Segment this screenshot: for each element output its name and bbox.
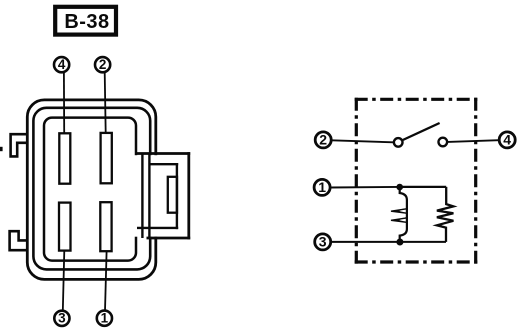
svg-text:2: 2	[319, 132, 327, 148]
pin cavity terminal 4 (top-left)	[59, 133, 70, 183]
latch inner window	[168, 177, 177, 213]
wire terminal 3 along bottom to resistor	[331, 241, 446, 243]
svg-text:1: 1	[318, 179, 326, 195]
terminal number 4 (connector)	[54, 57, 69, 72]
terminal number 1 (schematic)	[314, 179, 330, 195]
connector inner shell	[44, 118, 136, 261]
svg-text:3: 3	[58, 311, 66, 326]
svg-text:2: 2	[99, 57, 107, 72]
terminal number 3 (schematic)	[315, 234, 331, 250]
wire switch to terminal 4	[448, 140, 499, 142]
svg-text:4: 4	[503, 132, 511, 148]
node A junction dot	[396, 184, 403, 191]
pin cavity terminal 3 (bottom-left)	[59, 203, 71, 251]
switch contact A	[394, 138, 403, 147]
svg-text:1: 1	[101, 311, 109, 326]
node B junction dot	[396, 239, 403, 246]
wire node A to resistor branch	[400, 186, 447, 188]
coil loop 1	[391, 209, 407, 213]
pin cavity terminal 2 (top-right)	[101, 133, 112, 183]
connector middle shell	[33, 108, 150, 270]
wire terminal 1 to coil node	[330, 186, 399, 189]
leader line terminal 2	[105, 72, 106, 133]
pin cavity terminal 1 (bottom-right)	[100, 202, 111, 251]
connector outer shell	[27, 100, 156, 280]
left mounting clip lower	[10, 231, 28, 250]
svg-text:3: 3	[319, 234, 327, 250]
terminal number 2 (schematic)	[315, 132, 331, 148]
scan edge mark	[0, 147, 3, 151]
leader line terminal 3	[63, 251, 65, 312]
svg-text:4: 4	[58, 57, 66, 72]
resistor R1 (zigzag)	[437, 187, 454, 242]
connector label box B-38	[55, 7, 116, 35]
latch housing (right side)	[134, 152, 190, 239]
relay coil L1 body	[400, 187, 407, 242]
leader line terminal 4	[63, 72, 65, 133]
left mounting clip upper	[11, 134, 28, 156]
terminal number 2 (connector)	[95, 57, 110, 72]
terminal number 4 (schematic)	[499, 132, 515, 148]
svg-text:B-38: B-38	[64, 11, 109, 33]
leader line terminal 1	[105, 251, 107, 311]
switch blade	[403, 123, 440, 140]
relay internal-circuit box (dash-dot border)	[355, 98, 478, 264]
terminal number 1 (connector)	[97, 311, 112, 326]
switch contact B	[439, 138, 448, 147]
wire terminal 2 to switch	[332, 140, 394, 142]
terminal number 3 (connector)	[54, 311, 69, 326]
coil loop 2	[391, 218, 407, 222]
